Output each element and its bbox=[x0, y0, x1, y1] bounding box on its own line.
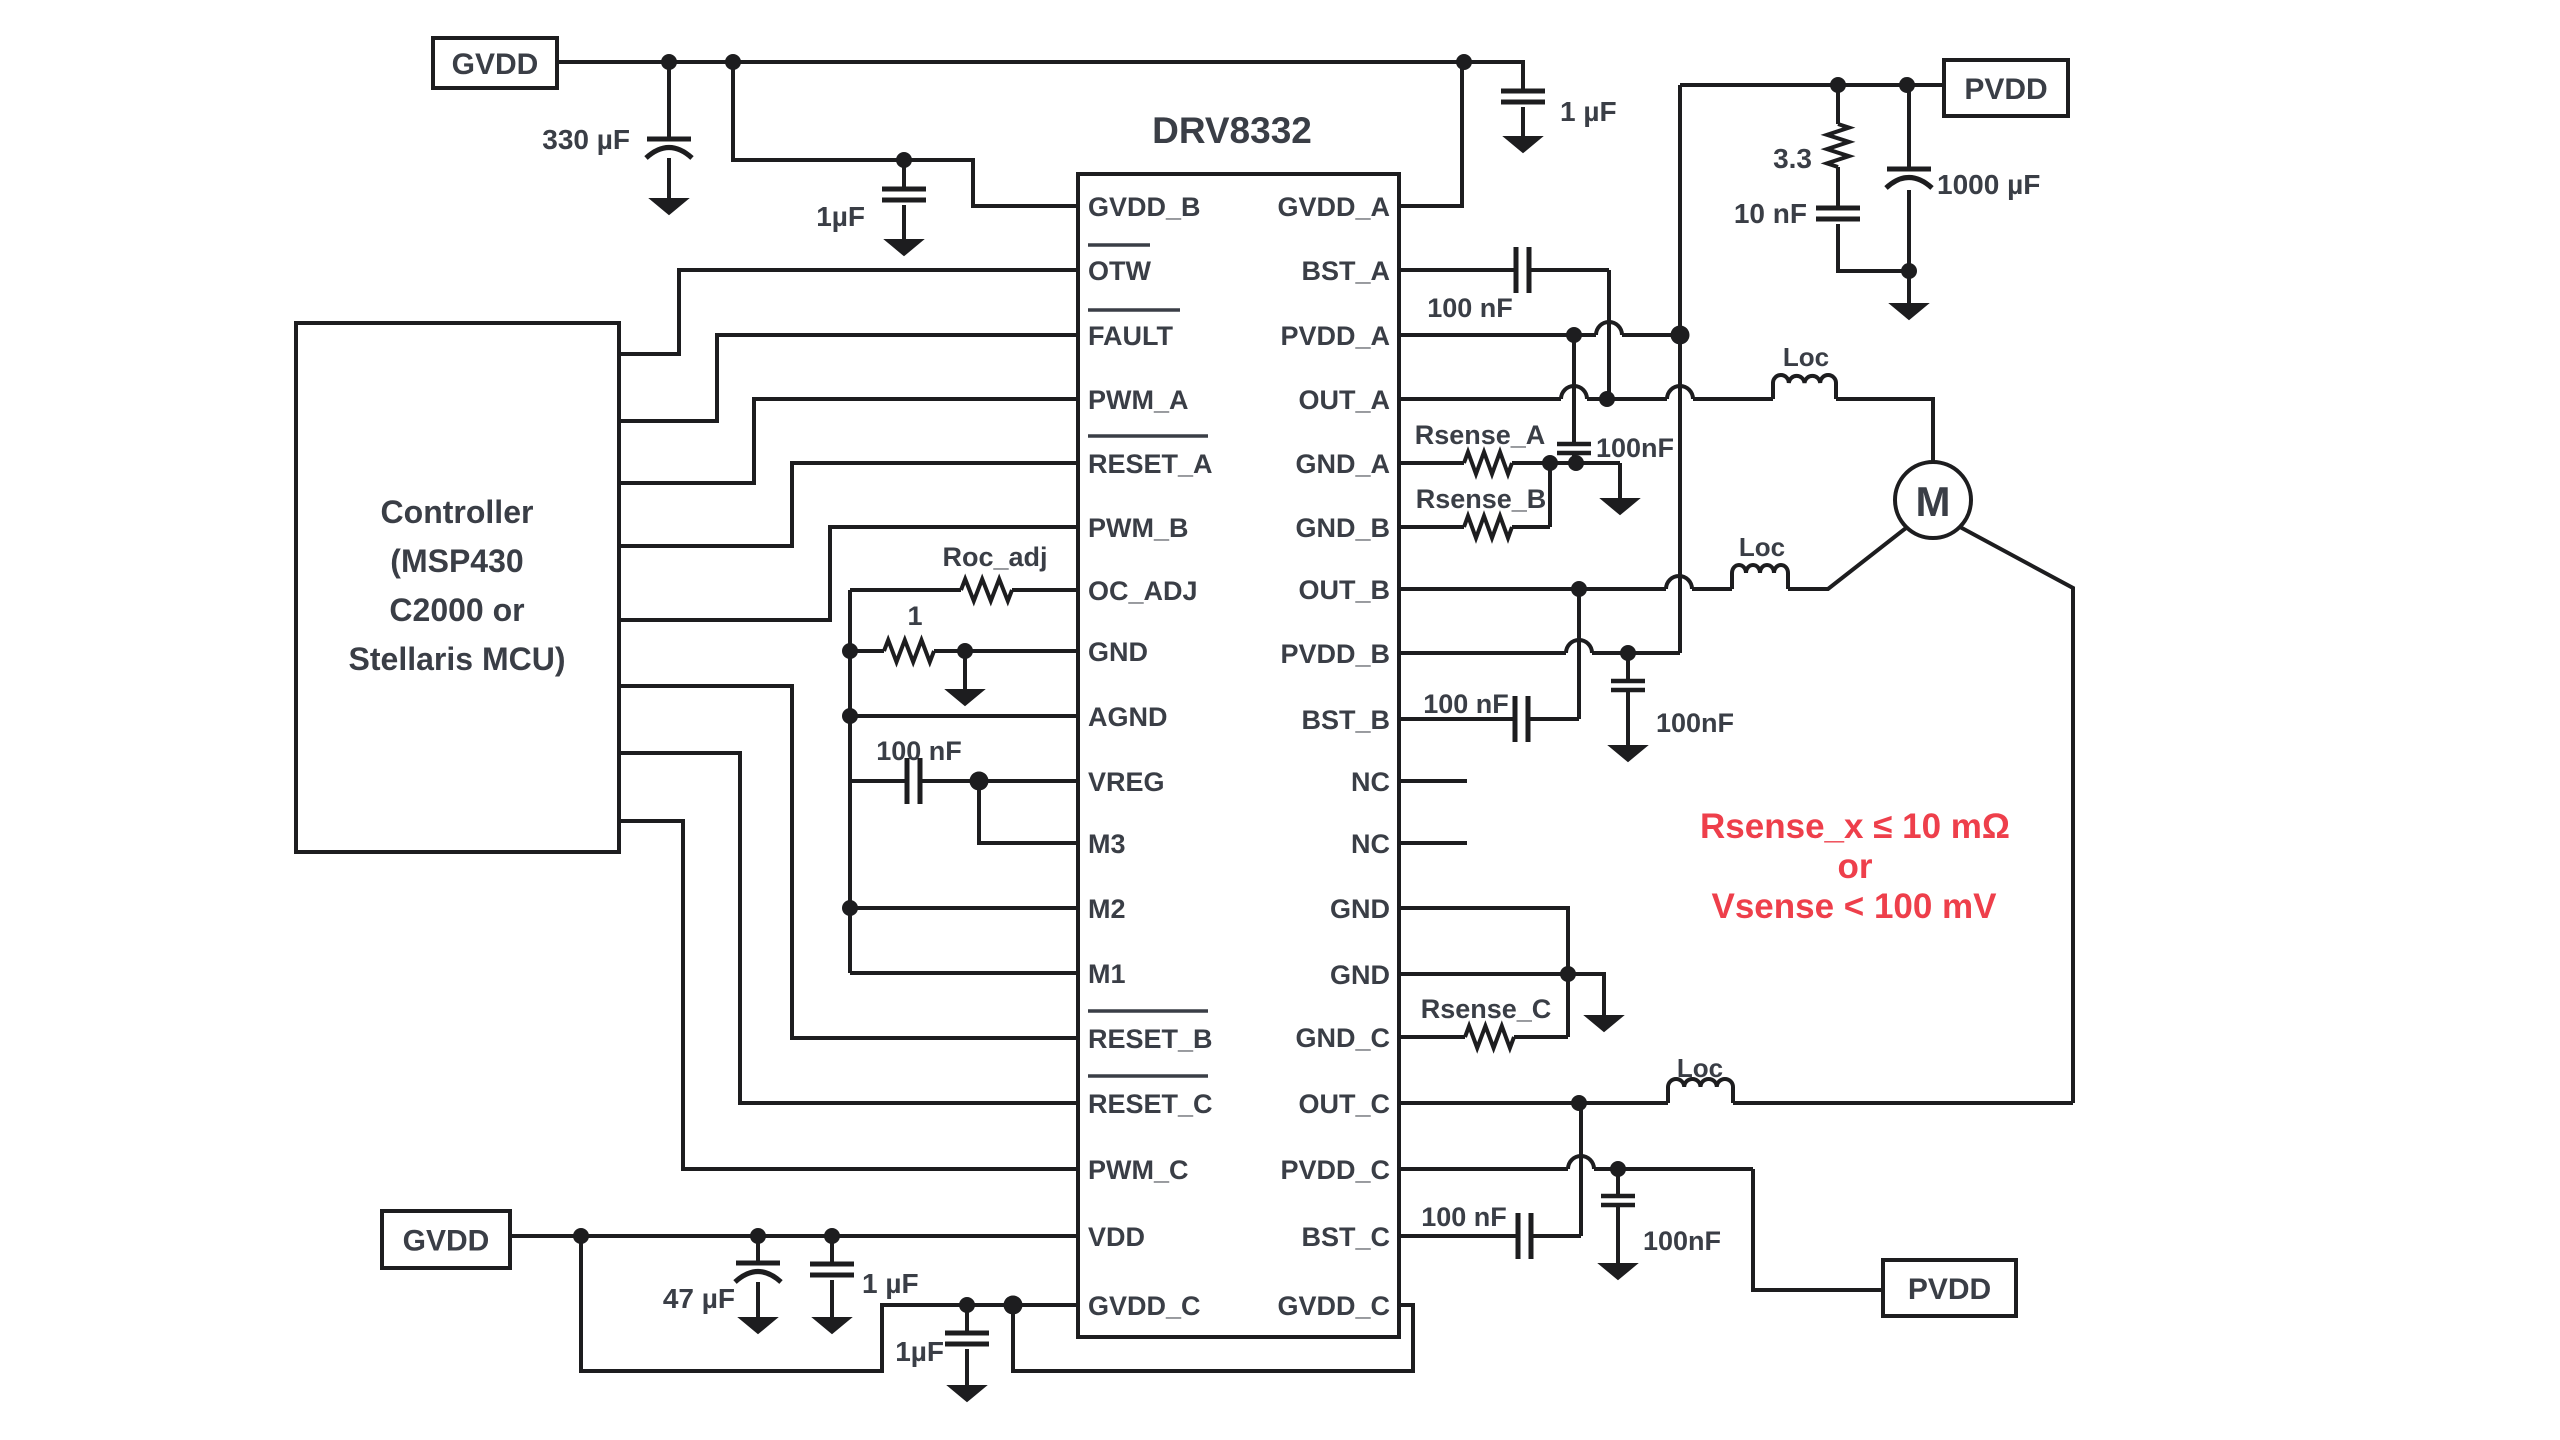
svg-text:1µF: 1µF bbox=[895, 1336, 944, 1367]
ground (PVDD bulk) bbox=[1907, 271, 1911, 304]
svg-text:GND_A: GND_A bbox=[1295, 449, 1390, 479]
svg-text:VREG: VREG bbox=[1088, 767, 1165, 797]
svg-text:BST_B: BST_B bbox=[1301, 705, 1390, 735]
wire GVDD_C bottom loop (right) bbox=[1013, 1305, 1413, 1371]
net label GVDD (bottom left) bbox=[382, 1211, 510, 1268]
svg-text:GND: GND bbox=[1330, 960, 1390, 990]
svg-text:PWM_A: PWM_A bbox=[1088, 385, 1189, 415]
node junction GND resistor/ground bbox=[957, 643, 973, 659]
svg-text:1: 1 bbox=[907, 601, 922, 631]
svg-text:10 nF: 10 nF bbox=[1734, 198, 1807, 229]
node junction 1 uF VDD bbox=[824, 1228, 840, 1244]
svg-text:1µF: 1µF bbox=[816, 201, 865, 232]
svg-text:GND_B: GND_B bbox=[1295, 513, 1390, 543]
node junction PVDD_A/100nF bbox=[1566, 327, 1582, 343]
svg-text:Loc: Loc bbox=[1783, 342, 1829, 372]
svg-text:C2000 or: C2000 or bbox=[389, 592, 524, 628]
svg-text:PVDD_A: PVDD_A bbox=[1280, 321, 1390, 351]
capacitor 1uF (GVDD_C) bbox=[965, 1305, 969, 1333]
svg-text:DRV8332: DRV8332 bbox=[1152, 110, 1312, 151]
node junction GND_A/Rsense_B bbox=[1542, 455, 1558, 471]
svg-text:M2: M2 bbox=[1088, 894, 1126, 924]
overbar OTW bbox=[1088, 243, 1150, 247]
svg-text:NC: NC bbox=[1351, 767, 1390, 797]
ground (1uF GVDD_B) bbox=[886, 240, 922, 255]
overbar RESET_B bbox=[1088, 1009, 1208, 1013]
capacitor 1000 uF (PVDD bulk) bbox=[1907, 85, 1911, 169]
controller block (MSP430 C2000 or Stellaris MCU) bbox=[296, 323, 619, 852]
svg-text:100 nF: 100 nF bbox=[1423, 689, 1509, 719]
capacitor 100nF (PVDD_A bypass) bbox=[1572, 335, 1576, 444]
node junction VREG/M3 bbox=[970, 772, 989, 791]
ground (GND net) bbox=[1568, 974, 1604, 1016]
inductor Loc (phase A) bbox=[1773, 375, 1836, 399]
svg-text:Rsense_x ≤ 10 mΩ: Rsense_x ≤ 10 mΩ bbox=[1700, 807, 2010, 846]
net label GVDD (top left) bbox=[433, 38, 557, 88]
wire OUT_C to motor bbox=[1733, 1101, 2073, 1105]
node junction PVDD/1000uF bbox=[1899, 77, 1915, 93]
node junction 1uF GVDD_B bbox=[896, 152, 912, 168]
capacitor 100 nF (BST_B bootstrap) bbox=[1399, 717, 1515, 721]
capacitor 330 uF (GVDD bulk) bbox=[667, 62, 671, 139]
node junction GVDD/330uF bbox=[661, 54, 677, 70]
svg-text:1 µF: 1 µF bbox=[1560, 96, 1617, 127]
svg-text:GND_C: GND_C bbox=[1295, 1023, 1390, 1053]
svg-text:100nF: 100nF bbox=[1656, 708, 1734, 738]
node junction GND net bbox=[1560, 966, 1576, 982]
resistor Rsense_A bbox=[1399, 461, 1464, 465]
overbar RESET_A bbox=[1088, 434, 1208, 438]
wire PVDD bus vertical bbox=[1678, 85, 1682, 653]
svg-text:PVDD_B: PVDD_B bbox=[1280, 639, 1390, 669]
svg-text:VDD: VDD bbox=[1088, 1222, 1145, 1252]
resistor Rsense_B bbox=[1399, 525, 1464, 529]
ground (1 uF GVDD_A) bbox=[1505, 137, 1541, 152]
svg-text:Rsense_C: Rsense_C bbox=[1421, 994, 1552, 1024]
ground (GND pin) bbox=[963, 651, 967, 690]
ground (330 uF) bbox=[651, 199, 687, 214]
node junction OUT_A/BST_A bbox=[1599, 391, 1615, 407]
svg-text:PWM_C: PWM_C bbox=[1088, 1155, 1189, 1185]
node junction bus/GND resistor bbox=[842, 643, 858, 659]
svg-text:or: or bbox=[1838, 847, 1873, 886]
wire Rsense_B to GND_A node bbox=[1548, 463, 1552, 527]
inductor Loc (phase C) bbox=[1668, 1079, 1733, 1103]
overbar FAULT bbox=[1088, 308, 1180, 312]
svg-text:OUT_B: OUT_B bbox=[1298, 575, 1390, 605]
wire GND (pin 12 right) bbox=[1399, 908, 1568, 974]
wire M1 bbox=[850, 971, 1078, 975]
svg-text:PVDD: PVDD bbox=[1908, 1273, 1991, 1306]
svg-text:100nF: 100nF bbox=[1643, 1226, 1721, 1256]
node junction bus/M2 bbox=[842, 900, 858, 916]
node junction VDD/bottom loop bbox=[573, 1228, 589, 1244]
wire GVDD_C loop (left) bbox=[581, 1236, 1078, 1371]
svg-text:RESET_A: RESET_A bbox=[1088, 449, 1213, 479]
wire VDD rail bbox=[510, 1234, 1078, 1238]
wire M2 bbox=[850, 906, 1078, 910]
svg-text:PVDD: PVDD bbox=[1964, 73, 2047, 106]
node junction bus/AGND bbox=[842, 708, 858, 724]
wire RESET_C to controller bbox=[619, 753, 1078, 1103]
wire M3 from VREG bbox=[979, 781, 1078, 843]
wire FAULT to controller bbox=[619, 335, 1078, 421]
resistor Rsense_C bbox=[1399, 1035, 1465, 1039]
svg-text:AGND: AGND bbox=[1088, 702, 1168, 732]
svg-text:GVDD_B: GVDD_B bbox=[1088, 192, 1201, 222]
wire GVDD_B branch bbox=[733, 62, 1078, 206]
ground (100nF PVDD_C) bbox=[1600, 1264, 1636, 1279]
svg-text:OTW: OTW bbox=[1088, 256, 1151, 286]
capacitor 10 nF (snubber) bbox=[1816, 206, 1860, 211]
node junction PVDD_B/100nF bbox=[1620, 645, 1636, 661]
wire BST_B to OUT_B bbox=[1577, 589, 1581, 719]
wire BST_A to OUT_A bbox=[1607, 270, 1611, 399]
node junction PVDD_A/PVDD bus bbox=[1671, 326, 1690, 345]
wire PVDD_B bbox=[1399, 651, 1566, 655]
capacitor 100nF (PVDD_B bypass) bbox=[1626, 653, 1630, 681]
svg-text:GND: GND bbox=[1088, 637, 1148, 667]
svg-text:Vsense < 100 mV: Vsense < 100 mV bbox=[1711, 887, 1997, 926]
resistor 3.3 (snubber) bbox=[1836, 85, 1840, 124]
ground (100nF PVDD_B) bbox=[1610, 746, 1646, 761]
svg-text:Controller: Controller bbox=[381, 494, 534, 530]
svg-text:BST_A: BST_A bbox=[1301, 256, 1390, 286]
ground (sense A/B) bbox=[1618, 463, 1622, 499]
pin stub NC bbox=[1399, 779, 1467, 783]
wire OUT_C bbox=[1399, 1101, 1668, 1105]
wire GVDD top rail bbox=[557, 60, 1464, 64]
svg-text:OUT_C: OUT_C bbox=[1298, 1089, 1390, 1119]
wire GND net to Rsense_C bbox=[1566, 974, 1570, 1037]
node junction GVDD/GVDD_B branch bbox=[725, 54, 741, 70]
wire AGND bbox=[850, 714, 1078, 718]
node junction OUT_C/BST_C bbox=[1571, 1095, 1587, 1111]
node junction 47uF bbox=[750, 1228, 766, 1244]
capacitor 1 uF (VDD) bbox=[830, 1236, 834, 1264]
svg-text:Loc: Loc bbox=[1677, 1053, 1723, 1083]
wire RESET_B to controller bbox=[619, 686, 1078, 1038]
svg-text:OUT_A: OUT_A bbox=[1298, 385, 1390, 415]
wire PWM_B to controller bbox=[619, 527, 1078, 620]
wire mode bus (AGND tie) bbox=[848, 590, 852, 973]
motor M bbox=[1895, 462, 1971, 538]
node junction GVDD_C/bottom wire bbox=[1004, 1296, 1023, 1315]
wire PVDD rail bbox=[1680, 83, 1944, 87]
wire OUT_B bbox=[1399, 587, 1666, 591]
svg-text:100nF: 100nF bbox=[1596, 433, 1674, 463]
capacitor 100nF (PVDD_C bypass) bbox=[1616, 1169, 1620, 1196]
capacitor 47 uF bbox=[756, 1236, 760, 1263]
wire GVDD_A bbox=[1399, 62, 1462, 206]
svg-text:Roc_adj: Roc_adj bbox=[942, 542, 1047, 572]
capacitor 100 nF (BST_C bootstrap) bbox=[1399, 1234, 1518, 1238]
wire PWM_A to controller bbox=[619, 399, 1078, 483]
svg-text:1000 µF: 1000 µF bbox=[1937, 169, 2040, 200]
svg-text:(MSP430: (MSP430 bbox=[390, 543, 523, 579]
capacitor 100 nF (BST_A bootstrap) bbox=[1399, 268, 1516, 272]
svg-text:GND: GND bbox=[1330, 894, 1390, 924]
node junction GVDD rail / GVDD_A bbox=[1456, 54, 1472, 70]
wire OTW to controller bbox=[619, 270, 1078, 354]
wire PVDD_A bbox=[1399, 333, 1596, 337]
wire OUT_A to motor bbox=[1836, 399, 1933, 463]
svg-text:100 nF: 100 nF bbox=[1421, 1202, 1507, 1232]
svg-text:RESET_B: RESET_B bbox=[1088, 1024, 1213, 1054]
svg-text:100 nF: 100 nF bbox=[1427, 293, 1513, 323]
node junction PVDD/3.3 resistor bbox=[1830, 77, 1846, 93]
wire PWM_C to controller bbox=[619, 821, 1078, 1169]
wire OUT_B to motor bbox=[1788, 528, 1906, 589]
svg-text:NC: NC bbox=[1351, 829, 1390, 859]
wire OUT_A bbox=[1399, 397, 1561, 401]
node junction 1uF GVDD_C bbox=[959, 1297, 975, 1313]
svg-text:M: M bbox=[1916, 478, 1951, 525]
wire PVDD_C bbox=[1399, 1167, 1568, 1171]
svg-text:Rsense_B: Rsense_B bbox=[1416, 484, 1547, 514]
svg-text:OC_ADJ: OC_ADJ bbox=[1088, 576, 1198, 606]
resistor 1 (GND pin) bbox=[850, 649, 884, 653]
inductor Loc (phase B) bbox=[1732, 565, 1788, 589]
net label PVDD (top right) bbox=[1944, 60, 2068, 116]
svg-text:GVDD: GVDD bbox=[403, 1225, 490, 1258]
node junction PVDD_C/100nF bbox=[1610, 1161, 1626, 1177]
overbar RESET_C bbox=[1088, 1074, 1208, 1078]
svg-text:M1: M1 bbox=[1088, 959, 1126, 989]
svg-text:M3: M3 bbox=[1088, 829, 1126, 859]
ground (1uF GVDD_C) bbox=[949, 1386, 985, 1401]
net label PVDD (bottom right) bbox=[1883, 1260, 2016, 1316]
svg-text:GVDD_A: GVDD_A bbox=[1277, 192, 1390, 222]
wire motor phase C bbox=[1960, 527, 2073, 1103]
wire GND (pin 13 right) bbox=[1399, 972, 1568, 976]
ground (1 uF VDD) bbox=[814, 1318, 850, 1333]
svg-text:100 nF: 100 nF bbox=[876, 736, 962, 766]
svg-text:GVDD_C: GVDD_C bbox=[1088, 1291, 1201, 1321]
wire PVDD_C to PVDD bbox=[1753, 1169, 1883, 1290]
svg-text:PVDD_C: PVDD_C bbox=[1280, 1155, 1390, 1185]
svg-text:RESET_C: RESET_C bbox=[1088, 1089, 1213, 1119]
svg-text:47 µF: 47 µF bbox=[663, 1283, 735, 1314]
pin stub NC bbox=[1399, 841, 1467, 845]
capacitor 100 nF (VREG) bbox=[850, 779, 907, 783]
wire RESET_A to controller bbox=[619, 463, 1078, 546]
svg-text:GVDD_C: GVDD_C bbox=[1277, 1291, 1390, 1321]
svg-text:FAULT: FAULT bbox=[1088, 321, 1173, 351]
svg-text:GVDD: GVDD bbox=[452, 48, 539, 81]
capacitor 1uF (GVDD_B decoupling) bbox=[902, 160, 906, 189]
IC U1 DRV8332 bbox=[1078, 174, 1399, 1337]
wire BST_C to OUT_C bbox=[1579, 1103, 1583, 1236]
node junction GND_A/100nF bbox=[1568, 455, 1584, 471]
svg-text:Loc: Loc bbox=[1739, 532, 1785, 562]
svg-text:1 µF: 1 µF bbox=[862, 1268, 919, 1299]
capacitor 1 uF (GVDD_A) bbox=[1464, 62, 1523, 91]
svg-text:3.3: 3.3 bbox=[1773, 143, 1812, 174]
svg-text:330 µF: 330 µF bbox=[542, 124, 630, 155]
svg-text:BST_C: BST_C bbox=[1301, 1222, 1390, 1252]
node junction 10nF/1000uF bbox=[1901, 263, 1917, 279]
svg-text:Stellaris MCU): Stellaris MCU) bbox=[349, 641, 566, 677]
resistor Roc_adj bbox=[850, 588, 961, 592]
node junction OUT_B/BST_B bbox=[1571, 581, 1587, 597]
ground (47 uF) bbox=[740, 1318, 776, 1333]
svg-text:Rsense_A: Rsense_A bbox=[1415, 420, 1546, 450]
svg-text:PWM_B: PWM_B bbox=[1088, 513, 1189, 543]
